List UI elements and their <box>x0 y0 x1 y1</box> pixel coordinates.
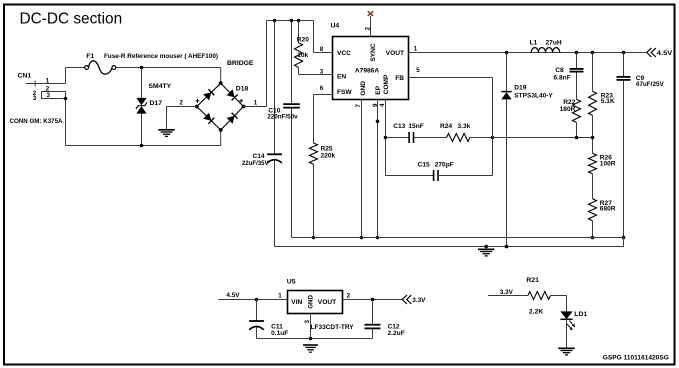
svg-text:22uF/35V: 22uF/35V <box>242 160 269 167</box>
svg-text:Fuse-R Reference mouser ( AHEF: Fuse-R Reference mouser ( AHEF100) <box>104 53 218 60</box>
svg-text:C13: C13 <box>393 123 405 130</box>
resistor R22 <box>573 99 581 122</box>
capacitor C12 wires <box>372 300 374 339</box>
resistor R26 <box>589 153 597 173</box>
pin 5 label <box>416 67 420 74</box>
net label 3.3V <box>500 289 514 296</box>
resistor R21 value label <box>529 309 543 316</box>
wire R24 to FB node <box>470 137 493 139</box>
LED LD1 ref label <box>574 311 587 318</box>
svg-text:2.2uF: 2.2uF <box>388 330 405 337</box>
pin 7 label <box>355 104 362 108</box>
wire FB riser <box>492 78 494 176</box>
wire R27 to rail <box>592 221 594 238</box>
connector CN1 pin 2 number <box>46 85 50 92</box>
svg-text:L1: L1 <box>530 40 538 47</box>
svg-text:3.3k: 3.3k <box>458 123 471 130</box>
U4 pin VOUT label <box>386 50 404 57</box>
wire C15 to FB riser <box>438 175 493 177</box>
svg-text:VIN: VIN <box>291 299 302 306</box>
diode D19 <box>501 92 511 100</box>
bridge diode top-left <box>203 89 214 100</box>
bridge diode bottom-right <box>227 113 238 124</box>
svg-text:R20: R20 <box>297 37 309 44</box>
capacitor C8 wires <box>576 53 578 100</box>
connector CN1 pin 3 number <box>47 92 51 99</box>
capacitor C11 <box>249 321 264 330</box>
node junction COMP C13 <box>384 136 388 140</box>
svg-text:R21: R21 <box>526 277 539 284</box>
capacitor C13 ref label <box>393 123 405 130</box>
svg-text:2: 2 <box>364 26 371 30</box>
node junction C14 top <box>273 19 277 23</box>
svg-text:FSW: FSW <box>337 89 352 96</box>
svg-text:D18: D18 <box>236 86 249 93</box>
svg-text:2: 2 <box>347 292 351 299</box>
pin 2 label U5 <box>347 292 351 299</box>
svg-text:180R: 180R <box>560 106 576 113</box>
wire FSW to R25 <box>314 95 333 144</box>
pin 4 label <box>379 103 386 107</box>
node junction R20 top <box>297 19 301 23</box>
svg-text:4.5V: 4.5V <box>226 292 240 299</box>
resistor R23 <box>589 91 597 115</box>
capacitor C9 wires <box>623 53 625 238</box>
node junction D19 lower rail <box>505 245 509 249</box>
svg-text:1: 1 <box>414 46 418 53</box>
wire R22 to FB node <box>576 122 578 137</box>
svg-text:SYNC: SYNC <box>370 43 377 62</box>
connector CN1 pin tick <box>34 81 36 87</box>
svg-text:VCC: VCC <box>337 50 351 57</box>
node junction R27 gnd <box>591 236 595 240</box>
svg-text:GND: GND <box>360 81 367 96</box>
diode D17 SM4TY <box>136 98 147 114</box>
node junction C10 top <box>290 19 294 23</box>
U4 pin EP label <box>375 85 382 94</box>
capacitor C9 value label <box>636 81 665 88</box>
inductor L1 value label <box>546 40 562 47</box>
connector CN1 name label <box>10 118 63 125</box>
resistor R21 ref label <box>526 277 539 284</box>
U5 pin GND label <box>308 294 315 308</box>
node junction U5 gnd <box>309 337 313 341</box>
capacitor C14 ref label <box>253 153 265 160</box>
svg-text:COMP: COMP <box>383 74 390 94</box>
wire COMP to C13 <box>386 137 410 139</box>
svg-text:270pF: 270pF <box>435 161 454 168</box>
wire top distribution rail <box>267 20 314 22</box>
bridge D18 frame <box>197 83 244 130</box>
capacitor C11 wires <box>256 300 258 339</box>
bridge D18 label BRIDGE <box>227 60 254 67</box>
capacitor C15 value label <box>435 161 454 168</box>
pin 9 label <box>372 103 379 107</box>
LED LD1 <box>560 311 575 330</box>
fuse F1 reference label <box>104 53 218 60</box>
op-amp U4 box <box>333 37 409 100</box>
wire COMP pin down <box>385 100 387 176</box>
svg-text:GSPG 1101161420SG: GSPG 1101161420SG <box>603 354 669 361</box>
resistor R24 ref label <box>440 123 452 130</box>
svg-text:SM4TY: SM4TY <box>149 83 172 90</box>
resistor R20 wires <box>298 21 300 75</box>
capacitor C8 ref label <box>555 67 564 74</box>
wire C13 to R24 <box>414 137 447 139</box>
no-connect X on SYNC <box>368 11 374 16</box>
ground symbol U5 <box>303 345 318 352</box>
wire bridge left to ground <box>167 107 197 130</box>
net label 4.5V input <box>226 292 240 299</box>
svg-text:4: 4 <box>379 103 386 107</box>
svg-text:5.1K: 5.1K <box>601 98 615 105</box>
resistor R25 ref label <box>321 146 333 153</box>
svg-text:1: 1 <box>46 78 50 85</box>
svg-text:CONN GM: K375A: CONN GM: K375A <box>10 118 63 125</box>
capacitor C10 wires <box>291 21 293 238</box>
svg-text:CN1: CN1 <box>18 73 32 80</box>
node junction D19 top <box>505 51 509 55</box>
pin 1 label <box>414 46 418 53</box>
resistor R23 value label <box>601 98 615 105</box>
resistor R27 <box>589 199 597 221</box>
diode D19 ref label <box>514 85 526 92</box>
capacitor C9 <box>617 77 631 80</box>
wire bridge output <box>244 21 267 107</box>
node junction C9 top <box>622 51 626 55</box>
resistor R23 wires <box>592 53 594 154</box>
connector CN1 pin 1 number <box>46 78 50 85</box>
bridge D18 ref label <box>236 86 249 93</box>
ground symbol main <box>478 249 495 256</box>
resistor R26 ref label <box>600 155 612 162</box>
capacitor C12 ref label <box>388 323 400 330</box>
fuse F1 <box>85 61 116 74</box>
wire R21 to LED <box>551 296 567 312</box>
node junction C8 top <box>575 51 579 55</box>
capacitor C10 <box>283 104 300 108</box>
svg-text:DC-DC section: DC-DC section <box>20 11 123 28</box>
svg-text:27uH: 27uH <box>546 40 562 47</box>
resistor R20 <box>295 43 303 68</box>
resistor R25 <box>310 143 318 164</box>
svg-text:VOUT: VOUT <box>318 299 336 306</box>
node junction FB node <box>491 136 495 140</box>
wire bridge top riser <box>220 68 222 84</box>
resistor R27 value label <box>600 205 616 212</box>
svg-text:5: 5 <box>416 67 420 74</box>
svg-text:R24: R24 <box>440 123 452 130</box>
pin 3 label U5 <box>304 320 311 324</box>
svg-text:3: 3 <box>304 320 311 324</box>
bridge diode bottom-left <box>203 113 214 124</box>
U4 pin VCC label <box>337 50 351 57</box>
U4 pin SYNC label <box>370 43 377 62</box>
wire bridge bottom riser <box>220 130 222 146</box>
capacitor C10 value label <box>267 113 298 120</box>
resistor R22 value label <box>560 106 576 113</box>
resistor R20 ref label <box>297 37 309 44</box>
U4 pin COMP label <box>383 74 390 94</box>
diode D17 type label <box>149 83 172 90</box>
bridge diode top-right <box>227 89 238 100</box>
svg-text:3.3V: 3.3V <box>412 297 426 304</box>
U5 type label LF33CDT-TRY <box>311 324 355 331</box>
wire rail to VCC pin <box>314 21 333 53</box>
pin 2 label <box>364 26 371 30</box>
svg-text:2.2K: 2.2K <box>529 309 543 316</box>
op-amp U4 label <box>331 23 340 30</box>
wire EP pin down <box>377 100 379 238</box>
wire FB node line <box>493 137 593 139</box>
wire fuse to bridge top <box>116 67 221 69</box>
resistor R20 value label <box>297 52 308 59</box>
node junction D19 gnd <box>505 245 509 249</box>
svg-text:7: 7 <box>355 104 362 108</box>
node junction C9 gnd <box>622 236 626 240</box>
diode D19 wires <box>506 53 508 247</box>
svg-text:C15: C15 <box>418 161 430 168</box>
wire U5 bottom <box>257 338 373 340</box>
output chevron 3.3V <box>402 295 411 304</box>
pin 3 label <box>320 69 324 76</box>
svg-text:U5: U5 <box>287 278 296 285</box>
pin 6 label <box>320 85 324 92</box>
diode D19 type label <box>514 93 553 100</box>
U4 pin FSW label <box>337 89 352 96</box>
svg-text:STPS3L40-Y: STPS3L40-Y <box>514 93 553 100</box>
connector CN1 pin 1 wire <box>26 83 66 85</box>
svg-text:0.1uF: 0.1uF <box>271 330 288 337</box>
capacitor C10 ref label <box>268 107 280 114</box>
svg-text:3: 3 <box>320 69 324 76</box>
node junction R23 R26 <box>591 136 595 140</box>
svg-text:220k: 220k <box>321 153 336 160</box>
node junction gnd symbol <box>484 245 488 249</box>
inductor L1 ref label <box>530 40 538 47</box>
op-amp U5 box <box>288 291 343 314</box>
capacitor C11 value label <box>271 330 288 337</box>
svg-text:47uF/25V: 47uF/25V <box>636 81 665 88</box>
svg-text:BRIDGE: BRIDGE <box>227 60 254 67</box>
diode D17 wires <box>141 68 143 146</box>
capacitor C13 <box>409 132 413 143</box>
svg-text:F1: F1 <box>86 53 94 60</box>
pin 1 label U5 <box>278 292 282 299</box>
connector CN1 outer pin 2 number <box>33 90 37 97</box>
net label 3.3V output <box>412 297 426 304</box>
capacitor C14 <box>267 154 282 163</box>
resistor R27 ref label <box>600 200 612 207</box>
wire 4.5V to U5 <box>218 299 287 301</box>
capacitor C8 value label <box>554 75 571 82</box>
wire LED to ground <box>566 319 568 348</box>
svg-text:D19: D19 <box>514 85 526 92</box>
U4 pin FB label <box>395 75 404 82</box>
svg-text:10k: 10k <box>297 52 308 59</box>
fuse F1 label <box>86 53 94 60</box>
capacitor C12 <box>365 325 381 329</box>
bridge pin 1 label <box>254 100 258 107</box>
wire GND pin down <box>361 100 363 238</box>
U4 part number A7986A <box>355 68 379 75</box>
node junction CN1 pin3 <box>64 97 68 101</box>
svg-text:A7986A: A7986A <box>355 68 379 75</box>
wire CN1 to fuse <box>66 67 85 69</box>
svg-text:2: 2 <box>180 99 184 106</box>
U4 pin EN label <box>337 73 346 80</box>
inductor L1 <box>531 48 559 53</box>
svg-text:C8: C8 <box>555 67 564 74</box>
node junction D17 top <box>140 66 144 70</box>
node junction EP mid <box>376 120 380 124</box>
svg-text:VOUT: VOUT <box>386 50 404 57</box>
wire SYNC stub <box>370 16 372 37</box>
bridge plus mark right <box>239 99 243 103</box>
wire upper ground rail <box>292 237 624 239</box>
bridge pin 2 label <box>180 99 184 106</box>
title DC-DC section <box>20 11 123 28</box>
wire VOUT rail <box>409 52 648 54</box>
resistor R26 value label <box>600 160 616 167</box>
U5 pin VOUT label <box>318 299 336 306</box>
wire R26 to R27 <box>592 174 594 199</box>
connector CN1 outer pin 3 number <box>33 95 37 102</box>
wire U5 vout <box>343 299 403 301</box>
connector CN1 pins 2-3 short box <box>42 92 66 99</box>
capacitor C11 ref label <box>271 323 283 330</box>
svg-text:8: 8 <box>320 46 324 53</box>
resistor R25 value label <box>321 153 336 160</box>
svg-text:3: 3 <box>33 95 37 102</box>
resistor R22 ref label <box>563 99 575 106</box>
U4 pin GND label <box>360 81 367 96</box>
capacitor C8 <box>570 69 584 72</box>
svg-text:220nF/50v: 220nF/50v <box>267 113 298 120</box>
wire bottom return rail <box>66 145 221 147</box>
capacitor C9 ref label <box>636 75 645 82</box>
node junction EP rail <box>376 236 380 240</box>
net label 4.5V <box>657 50 673 57</box>
svg-text:1: 1 <box>254 100 258 107</box>
svg-text:4.5V: 4.5V <box>657 50 673 57</box>
svg-text:LF33CDT-TRY: LF33CDT-TRY <box>311 324 355 331</box>
connector CN1 label <box>18 73 32 80</box>
capacitor C13 value label <box>408 123 423 130</box>
svg-text:EN: EN <box>337 73 346 80</box>
svg-text:1: 1 <box>278 292 282 299</box>
svg-text:U4: U4 <box>331 23 340 30</box>
svg-text:R22: R22 <box>563 99 575 106</box>
svg-text:15nF: 15nF <box>408 123 423 130</box>
capacitor C15 ref label <box>418 161 430 168</box>
capacitor C14 wires <box>274 21 276 247</box>
node junction GND pin rail <box>360 236 364 240</box>
U5 pin VIN label <box>291 299 302 306</box>
resistor R21 <box>528 292 551 300</box>
capacitor C15 <box>434 170 438 181</box>
node junction R25 gnd <box>312 236 316 240</box>
svg-text:FB: FB <box>395 75 404 82</box>
node junction C12 top <box>371 298 375 302</box>
wire CN1 down riser <box>65 99 67 146</box>
svg-text:680R: 680R <box>600 205 616 212</box>
doc number GSPG <box>603 354 669 361</box>
svg-text:GND: GND <box>308 294 315 308</box>
svg-text:LD1: LD1 <box>574 311 587 318</box>
svg-text:EP: EP <box>375 85 382 94</box>
resistor R24 value label <box>458 123 471 130</box>
resistor R23 ref label <box>601 92 613 99</box>
bridge vertex dots <box>195 81 246 132</box>
wire COMP to C15 <box>386 175 434 177</box>
resistor R24 <box>447 134 471 142</box>
svg-text:6.8nF: 6.8nF <box>554 75 571 82</box>
ground symbol input <box>158 130 175 137</box>
node junction C11 top <box>255 298 259 302</box>
wire lower ground rail <box>275 238 624 247</box>
wire 3.3V to R21 <box>488 295 528 297</box>
wire U5 gnd pin <box>310 314 312 339</box>
svg-text:D17: D17 <box>150 100 163 107</box>
svg-text:100R: 100R <box>600 160 616 167</box>
op-amp U5 label <box>287 278 296 285</box>
output chevron 4.5V <box>647 48 656 57</box>
wire FB pin <box>409 77 493 79</box>
diode D17 ref label <box>150 100 163 107</box>
resistor R25 wires down <box>313 164 315 237</box>
node junction R23 top <box>591 51 595 55</box>
bridge plus mark left <box>196 99 200 103</box>
node junction D17 bottom <box>140 144 144 148</box>
wire R20 to EN <box>299 74 333 76</box>
wire CN1 pin1 riser <box>65 68 67 84</box>
capacitor C14 value label <box>242 160 269 167</box>
ground symbol LED <box>558 348 575 355</box>
pin 8 label <box>320 46 324 53</box>
capacitor C12 value label <box>388 330 405 337</box>
svg-text:6: 6 <box>320 85 324 92</box>
node junction R22 FB <box>575 136 579 140</box>
